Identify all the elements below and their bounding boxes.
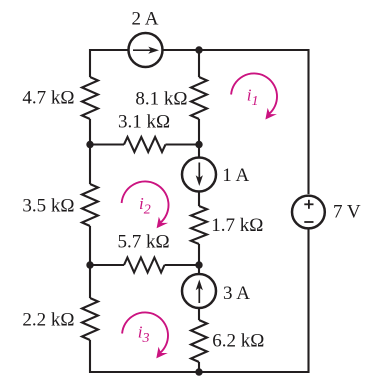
wire left vertical 3 — [89, 226, 91, 298]
7V source minus sign — [304, 221, 313, 223]
junction dot row1 left — [86, 141, 93, 148]
1A arrowhead — [196, 175, 203, 186]
wire left vertical bottom — [89, 340, 91, 373]
svg-text:3.1 kΩ: 3.1 kΩ — [118, 112, 170, 133]
junction dot top middle — [195, 46, 202, 53]
svg-text:6.2 kΩ: 6.2 kΩ — [212, 330, 264, 351]
mesh current i2 arc — [122, 181, 169, 223]
svg-text:5.7 kΩ: 5.7 kΩ — [118, 232, 170, 253]
svg-text:i3: i3 — [138, 322, 150, 346]
resistor R 4.7k — [82, 77, 98, 119]
wire left vertical 2 — [89, 119, 91, 184]
svg-text:3.5 kΩ: 3.5 kΩ — [22, 196, 74, 217]
voltage source 7V circle — [292, 196, 325, 229]
svg-text:8.1 kΩ: 8.1 kΩ — [135, 89, 187, 110]
wire middle 2 — [198, 119, 200, 158]
mesh current i2 arrowhead — [157, 217, 169, 229]
junction dot row2 left — [86, 261, 93, 268]
3A arrowhead — [196, 280, 203, 291]
resistor R 5.7k — [124, 258, 165, 273]
wire row1 left — [90, 143, 124, 145]
resistor R 3.1k — [124, 137, 166, 152]
current source 1A circle — [182, 158, 216, 192]
svg-text:2 A: 2 A — [132, 9, 159, 30]
wire 2A source to top-right corner — [163, 49, 309, 51]
svg-text:2.2 kΩ: 2.2 kΩ — [22, 310, 74, 331]
wire top-left to 2A source — [90, 49, 129, 51]
resistor R 1.7k — [191, 206, 207, 244]
mesh current i1 arc — [231, 73, 277, 114]
current source 3A circle — [182, 274, 216, 308]
svg-text:4.7 kΩ: 4.7 kΩ — [22, 88, 74, 109]
wire row2 left — [90, 264, 124, 266]
1A arrow shaft — [198, 163, 200, 182]
junction dot row1 right — [195, 141, 202, 148]
svg-text:1 A: 1 A — [222, 165, 249, 186]
current source 2A circle — [129, 33, 163, 67]
svg-text:7 V: 7 V — [333, 202, 361, 223]
mesh current i3 arrowhead — [156, 347, 168, 359]
2A arrowhead — [148, 47, 159, 54]
wire middle 3 (1A to 1.7k) — [198, 191, 200, 207]
wire middle vertical top — [198, 50, 200, 77]
svg-text:i1: i1 — [247, 86, 259, 110]
svg-text:3 A: 3 A — [223, 283, 250, 304]
resistor R 3.5k — [82, 184, 98, 226]
wire row1 right — [166, 143, 200, 145]
resistor R 6.2k — [191, 320, 207, 362]
wire middle 5 (3A to 6.2k) — [198, 308, 200, 321]
mesh current i1 arrowhead — [265, 108, 277, 120]
wire right vertical top — [307, 49, 309, 194]
7V source plus sign — [304, 200, 313, 222]
junction dot bottom middle — [195, 368, 202, 375]
resistor R 8.1k — [191, 77, 207, 119]
wire row2 right — [165, 264, 200, 266]
2A arrow shaft — [133, 49, 153, 51]
wire left vertical top — [89, 49, 91, 77]
wire middle 4 — [198, 244, 200, 275]
svg-text:i2: i2 — [139, 194, 151, 218]
junction dot row2 right — [195, 261, 202, 268]
wire bottom — [89, 371, 310, 373]
svg-text:1.7 kΩ: 1.7 kΩ — [211, 215, 263, 236]
resistor R 2.2k — [82, 298, 98, 340]
3A arrow shaft — [198, 285, 200, 304]
wire middle 6 — [198, 362, 200, 372]
mesh current i3 arc — [122, 312, 168, 353]
wire right vertical bottom — [307, 229, 309, 373]
